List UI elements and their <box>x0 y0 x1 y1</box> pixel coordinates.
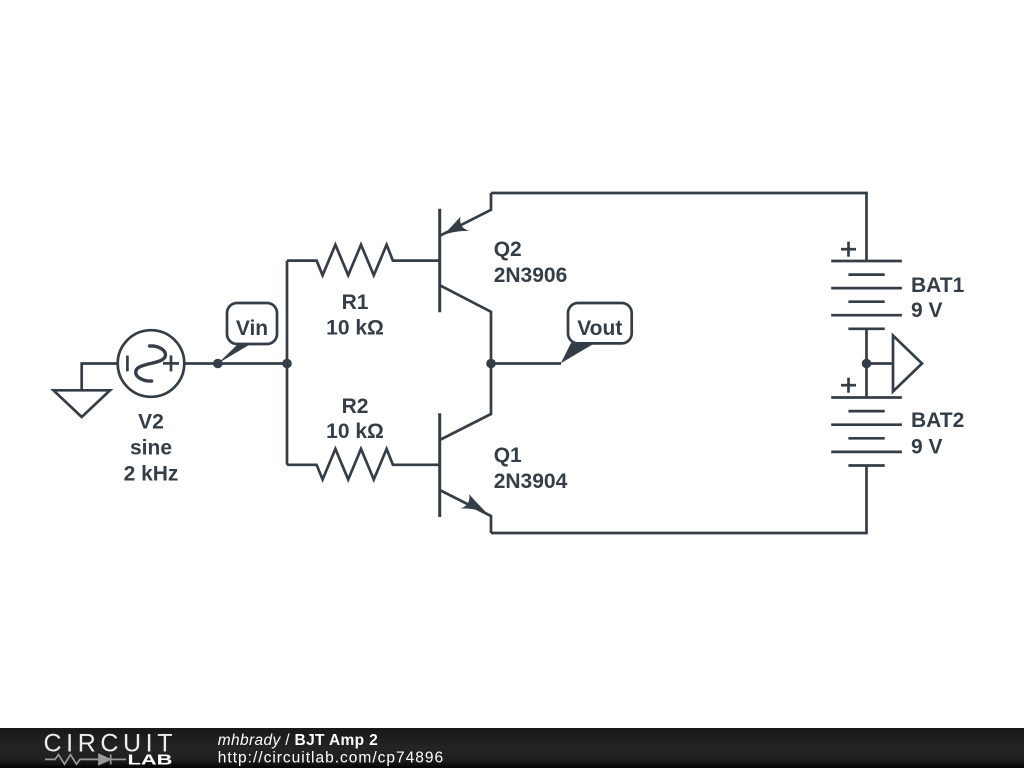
wire out node to Vout <box>491 362 561 365</box>
Vout flag tail <box>561 343 595 363</box>
node dot Vin <box>213 359 223 369</box>
svg-text:Vin: Vin <box>236 317 268 340</box>
voltage source V2 <box>118 330 185 397</box>
svg-text:LAB: LAB <box>128 753 173 768</box>
footer bar <box>0 728 1024 768</box>
output port triangle <box>893 336 922 392</box>
battery BAT1 <box>831 242 902 329</box>
net flag Vout box <box>568 303 632 343</box>
svg-text:R2: R2 <box>342 395 369 418</box>
svg-text:9 V: 9 V <box>911 299 943 322</box>
svg-text:mhbrady / BJT Amp 2: mhbrady / BJT Amp 2 <box>218 732 378 749</box>
Q1 arrow <box>460 494 487 513</box>
battery BAT2 <box>831 378 902 466</box>
ground <box>54 390 111 417</box>
resistor R1 <box>287 245 439 276</box>
svg-text:R1: R1 <box>342 291 369 314</box>
Q2 arrow <box>443 217 470 236</box>
svg-text:2 kHz: 2 kHz <box>124 463 179 486</box>
svg-text:BAT2: BAT2 <box>911 409 964 432</box>
svg-text:2N3906: 2N3906 <box>494 264 568 287</box>
logo resistor-diode glyph <box>45 754 126 764</box>
node dot output <box>486 359 496 369</box>
Vin flag tail <box>218 344 252 364</box>
svg-text:V2: V2 <box>138 411 164 434</box>
wire ground to V2 <box>82 364 118 390</box>
svg-text:Q1: Q1 <box>494 444 522 467</box>
wire bottom rail <box>491 466 867 534</box>
svg-text:10 kΩ: 10 kΩ <box>326 316 384 339</box>
svg-text:9 V: 9 V <box>911 435 943 458</box>
svg-text:Q2: Q2 <box>494 238 522 261</box>
wire node to output port <box>867 362 894 365</box>
svg-text:10 kΩ: 10 kΩ <box>326 420 384 443</box>
wire vertical R1-R2 <box>286 261 289 465</box>
wire top rail <box>491 193 867 261</box>
svg-text:http://circuitlab.com/cp74896: http://circuitlab.com/cp74896 <box>218 750 444 767</box>
svg-text:Vout: Vout <box>577 317 622 340</box>
svg-text:sine: sine <box>130 437 172 460</box>
svg-text:BAT1: BAT1 <box>911 274 965 297</box>
svg-text:2N3904: 2N3904 <box>494 470 568 493</box>
transistor Q1 body <box>440 364 491 534</box>
transistor Q2 body <box>440 193 491 364</box>
wire V2 to junction <box>184 362 287 365</box>
net flag Vin box <box>227 303 277 344</box>
resistor R2 <box>287 449 439 480</box>
wire BAT1 to BAT2 <box>865 329 868 398</box>
node dot junction <box>282 359 292 369</box>
node dot mid rail <box>862 359 872 369</box>
